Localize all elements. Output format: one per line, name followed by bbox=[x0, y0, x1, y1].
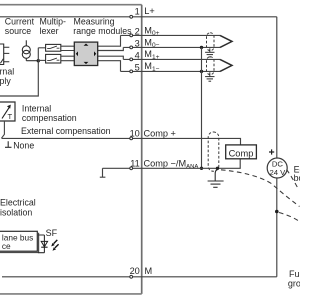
svg-text:ply: ply bbox=[0, 76, 11, 86]
svg-text:lexer: lexer bbox=[40, 26, 59, 36]
selector link down to Comp+ wire bbox=[1, 121, 4, 138]
svg-text:compensation: compensation bbox=[22, 113, 77, 123]
svg-text:M1+: M1+ bbox=[144, 49, 159, 61]
svg-text:Measuring: Measuring bbox=[74, 17, 115, 27]
node junction MANA to Comp- wire bbox=[200, 167, 203, 170]
thermocouple 1 flag bbox=[220, 59, 232, 71]
terminal 20 circle bbox=[130, 275, 133, 278]
svg-text:Current: Current bbox=[5, 17, 35, 27]
terminal 1 circle bbox=[130, 15, 133, 18]
thermocouple 0 flag bbox=[220, 35, 232, 47]
svg-text:source: source bbox=[5, 26, 32, 36]
svg-text:4: 4 bbox=[135, 50, 140, 60]
svg-text:T: T bbox=[8, 112, 13, 121]
svg-text:range modules: range modules bbox=[73, 26, 132, 36]
svg-text:20: 20 bbox=[130, 266, 140, 276]
svg-text:grou: grou bbox=[288, 279, 300, 289]
DC 24V load power supply circle bbox=[267, 158, 287, 178]
svg-text:Internal: Internal bbox=[22, 104, 51, 114]
svg-text:1: 1 bbox=[135, 6, 140, 16]
node junction M1- to MANA line bbox=[200, 70, 203, 73]
wire M0+ terminal 2 bbox=[121, 34, 221, 36]
module terminal bus (right border of module) bbox=[141, 5, 143, 294]
svg-text:M0−: M0− bbox=[144, 37, 159, 49]
svg-text:L+: L+ bbox=[144, 6, 154, 16]
LED arrows bbox=[54, 240, 58, 244]
wire Comp- / MANA terminal 11 bbox=[103, 159, 241, 169]
measuring range module arrow top bbox=[84, 44, 89, 46]
MANA chassis terminator left of terminal 11 bbox=[100, 168, 106, 177]
terminal 10 circle bbox=[130, 137, 133, 140]
svg-text:11: 11 bbox=[130, 158, 140, 168]
svg-text:Comp: Comp bbox=[229, 148, 254, 158]
svg-text:bo: bo bbox=[294, 173, 300, 183]
equipotential bonding dashed curve bbox=[287, 170, 299, 189]
svg-text:ce: ce bbox=[2, 241, 11, 251]
compensation box Comp bbox=[226, 145, 257, 159]
shielded cable capsule thermocouple 1 bbox=[207, 57, 215, 75]
node junction current source / multiplexer common bbox=[37, 59, 40, 62]
terminal 4 circle bbox=[130, 58, 133, 61]
svg-text:SF: SF bbox=[46, 228, 58, 238]
wire M1+ jog from module pin 3 bbox=[98, 56, 124, 59]
svg-text:Multip-: Multip- bbox=[40, 17, 66, 27]
shield ground thermocouple 1 bbox=[205, 72, 214, 81]
compensation selector T-box bbox=[0, 102, 15, 121]
wire L+ right side vertical down to DC source bbox=[276, 17, 278, 277]
measuring range module arrow left bbox=[76, 51, 78, 56]
wire M terminal 20 horizontal bbox=[2, 276, 277, 278]
shielded cable capsule thermocouple 0 bbox=[207, 33, 215, 51]
svg-text:Comp +: Comp + bbox=[144, 129, 176, 139]
functional ground dashed leader from node bbox=[279, 213, 300, 222]
plus polarity label bbox=[269, 149, 274, 154]
svg-text:10: 10 bbox=[130, 128, 140, 138]
shielded cable capsule compensation pair bbox=[208, 132, 219, 171]
node junction shield ground on wire 11 bbox=[216, 167, 219, 170]
wire L+ terminal 1 horizontal bbox=[0, 16, 277, 18]
none option ground symbol bbox=[5, 141, 12, 147]
SF LED symbol bbox=[38, 235, 45, 253]
terminal 2 circle bbox=[130, 34, 133, 37]
svg-text:Electrical: Electrical bbox=[0, 198, 36, 208]
svg-text:Fun: Fun bbox=[289, 269, 300, 279]
T-box arrow bbox=[2, 107, 10, 119]
wire M0- terminal 3 bbox=[123, 46, 220, 48]
wire M0- jog from module pin 2 bbox=[98, 47, 124, 50]
module bottom border bbox=[0, 293, 142, 295]
wire M1- terminal 5 bbox=[121, 70, 221, 72]
node junction M0- to MANA line bbox=[200, 46, 203, 49]
wire mux switch 1 left pin bbox=[38, 47, 45, 49]
terminal 11 circle bbox=[130, 167, 133, 170]
terminal 3 circle bbox=[130, 46, 133, 49]
shield ground thermocouple 0 bbox=[205, 48, 214, 57]
svg-text:2: 2 bbox=[135, 27, 140, 37]
measuring range module (gray box) bbox=[74, 42, 97, 65]
module top border bbox=[0, 4, 142, 6]
wire multiplexer common vertical bbox=[0, 48, 38, 96]
current source symbol (two circles) bbox=[22, 40, 38, 60]
backplane bus interface box with shadow bbox=[0, 233, 39, 253]
svg-text:M1−: M1− bbox=[144, 61, 159, 73]
svg-text:isolation: isolation bbox=[0, 207, 32, 217]
internal supply sawtooth hint bbox=[0, 59, 3, 64]
measuring range module arrow bottom bbox=[84, 62, 89, 64]
svg-text:rnal: rnal bbox=[0, 66, 14, 76]
wires mux to measuring range module bbox=[61, 46, 75, 61]
terminal 5 circle bbox=[130, 70, 133, 73]
wire Comp+ terminal 10 bbox=[2, 138, 241, 145]
measuring range module arrow right bbox=[94, 51, 96, 56]
svg-text:3: 3 bbox=[135, 39, 140, 49]
multiplexer switch box 1 bbox=[46, 44, 61, 51]
wire M0+ jog from module pin 1 bbox=[98, 35, 121, 46]
wire M1+ terminal 4 bbox=[123, 58, 220, 60]
functional ground dashed boundary curve bbox=[221, 170, 300, 207]
wire mux switch 2 left pin bbox=[38, 59, 45, 61]
shield earth ground below compensation capsule bbox=[208, 169, 224, 188]
internal supply pin stubs bbox=[4, 47, 10, 62]
svg-text:Comp −/MANA: Comp −/MANA bbox=[144, 158, 199, 170]
wire MANA vertical bbox=[201, 47, 203, 168]
svg-text:M0+: M0+ bbox=[144, 25, 159, 37]
svg-text:24 V: 24 V bbox=[269, 168, 286, 177]
svg-text:None: None bbox=[13, 141, 34, 151]
internal supply box (cropped at left) bbox=[0, 44, 4, 65]
wire M1- jog from module pin 4 bbox=[98, 61, 121, 72]
svg-text:M: M bbox=[145, 266, 153, 276]
svg-text:External compensation: External compensation bbox=[21, 126, 111, 136]
node junction equipotential bonding on supply wire bbox=[275, 210, 279, 214]
multiplexer switch box 2 bbox=[46, 54, 61, 63]
svg-text:5: 5 bbox=[135, 62, 140, 72]
